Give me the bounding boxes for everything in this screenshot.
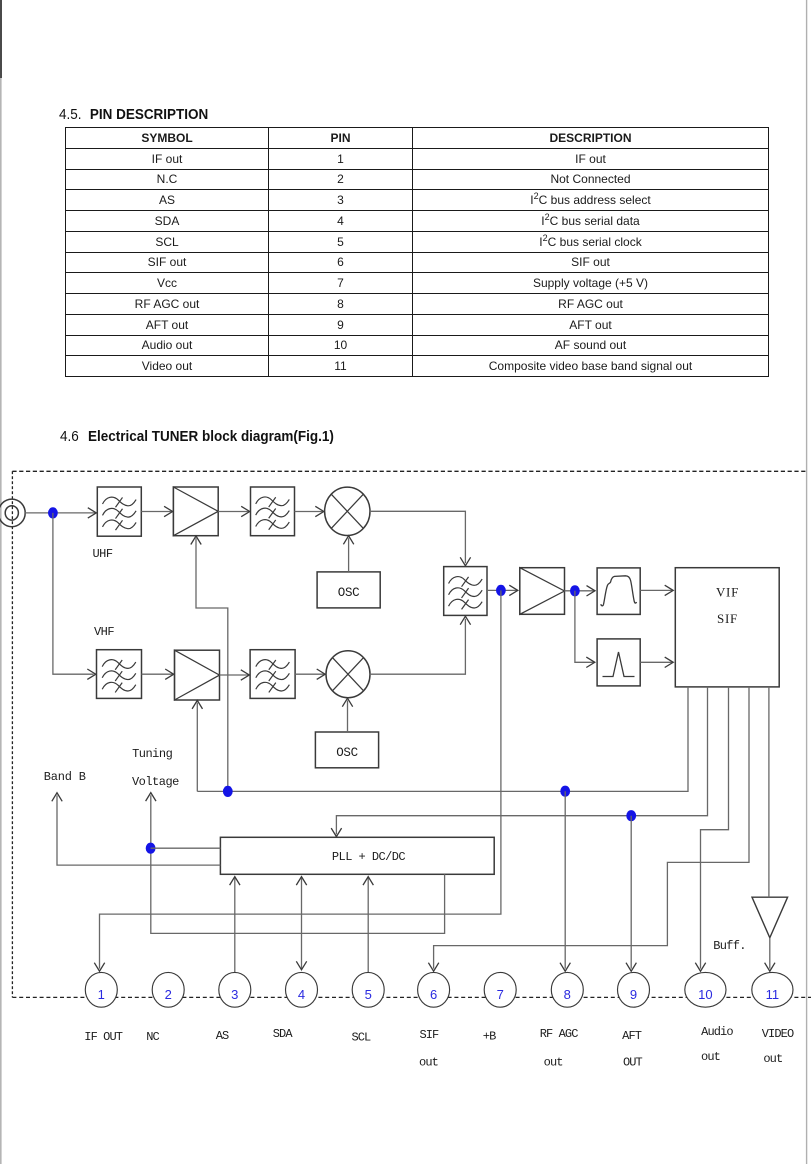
svg-text:Voltage: Voltage <box>132 775 179 789</box>
svg-text:OSC: OSC <box>336 746 358 760</box>
svg-text:1: 1 <box>98 987 105 1002</box>
svg-text:NC: NC <box>146 1030 159 1044</box>
svg-text:VIDEO: VIDEO <box>762 1027 794 1041</box>
svg-text:Buff.: Buff. <box>713 939 746 953</box>
svg-text:+B: +B <box>483 1030 496 1044</box>
svg-text:SIF: SIF <box>419 1028 439 1042</box>
svg-text:SDA: SDA <box>273 1027 294 1041</box>
svg-text:OSC: OSC <box>338 586 360 600</box>
svg-text:2: 2 <box>165 987 172 1002</box>
svg-text:9: 9 <box>630 987 637 1002</box>
svg-text:UHF: UHF <box>92 547 112 561</box>
svg-text:out: out <box>544 1055 563 1069</box>
svg-text:AS: AS <box>216 1029 229 1043</box>
svg-text:Audio: Audio <box>701 1025 733 1039</box>
svg-text:VHF: VHF <box>94 625 114 639</box>
svg-text:11: 11 <box>766 987 780 1002</box>
svg-text:PLL + DC/DC: PLL + DC/DC <box>332 850 406 864</box>
svg-text:out: out <box>419 1055 438 1069</box>
svg-text:7: 7 <box>497 987 504 1002</box>
svg-text:IF OUT: IF OUT <box>84 1030 123 1044</box>
svg-text:Tuning: Tuning <box>132 747 173 761</box>
svg-text:RF AGC: RF AGC <box>540 1027 579 1041</box>
svg-text:AFT: AFT <box>622 1029 642 1043</box>
svg-text:6: 6 <box>430 987 437 1002</box>
svg-text:out: out <box>763 1052 782 1066</box>
svg-text:out: out <box>701 1050 720 1064</box>
svg-text:3: 3 <box>231 987 238 1002</box>
svg-text:10: 10 <box>698 987 712 1002</box>
svg-text:5: 5 <box>365 987 372 1002</box>
svg-text:8: 8 <box>564 987 571 1002</box>
svg-text:4: 4 <box>298 987 305 1002</box>
svg-text:SIF: SIF <box>717 611 738 626</box>
svg-text:SCL: SCL <box>351 1031 371 1045</box>
svg-text:OUT: OUT <box>623 1055 643 1069</box>
svg-text:Band B: Band B <box>44 770 86 784</box>
svg-text:VIF: VIF <box>716 585 739 600</box>
